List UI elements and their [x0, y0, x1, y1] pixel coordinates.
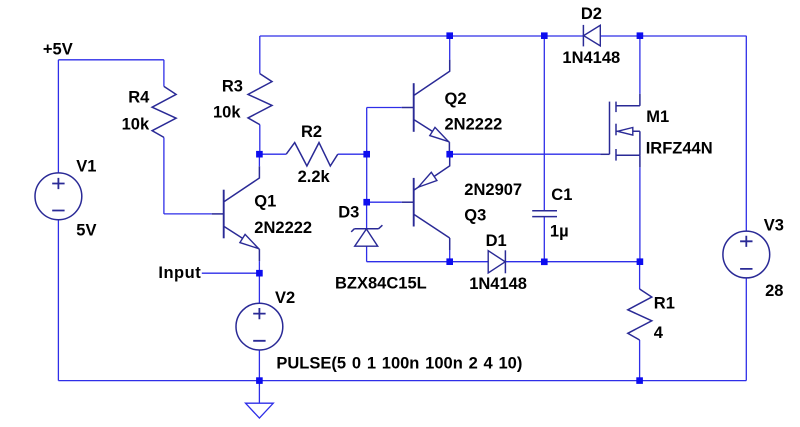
svg-text:IRFZ44N: IRFZ44N: [646, 139, 713, 157]
svg-text:R2: R2: [301, 123, 322, 141]
svg-text:Q3: Q3: [464, 207, 486, 225]
svg-text:5V: 5V: [76, 221, 96, 239]
svg-text:28: 28: [765, 282, 783, 300]
svg-text:2.2k: 2.2k: [298, 168, 331, 186]
svg-text:2N2222: 2N2222: [445, 116, 503, 134]
svg-text:V1: V1: [76, 157, 96, 175]
svg-text:V2: V2: [275, 289, 295, 307]
svg-text:C1: C1: [551, 186, 572, 204]
svg-text:Q2: Q2: [445, 90, 467, 108]
svg-text:D1: D1: [486, 232, 507, 250]
svg-text:1µ: 1µ: [550, 223, 569, 241]
svg-text:M1: M1: [646, 108, 669, 126]
svg-text:R4: R4: [128, 89, 150, 107]
svg-text:+5V: +5V: [43, 40, 73, 58]
svg-text:2N2222: 2N2222: [254, 219, 312, 237]
svg-text:V3: V3: [764, 217, 784, 235]
svg-text:2N2907: 2N2907: [464, 181, 522, 199]
svg-text:D2: D2: [581, 5, 602, 23]
svg-text:10k: 10k: [122, 116, 150, 134]
svg-text:D3: D3: [338, 204, 359, 222]
svg-text:4: 4: [654, 324, 664, 342]
svg-text:BZX84C15L: BZX84C15L: [335, 274, 427, 292]
svg-text:1N4148: 1N4148: [562, 49, 620, 67]
svg-text:Input: Input: [158, 264, 201, 282]
svg-text:10k: 10k: [213, 104, 241, 122]
svg-text:R3: R3: [222, 77, 243, 95]
svg-text:PULSE(5 0 1 100n 100n 2 4 10): PULSE(5 0 1 100n 100n 2 4 10): [276, 354, 522, 372]
svg-text:R1: R1: [654, 294, 675, 312]
svg-text:Q1: Q1: [254, 193, 276, 211]
svg-text:1N4148: 1N4148: [469, 275, 527, 293]
